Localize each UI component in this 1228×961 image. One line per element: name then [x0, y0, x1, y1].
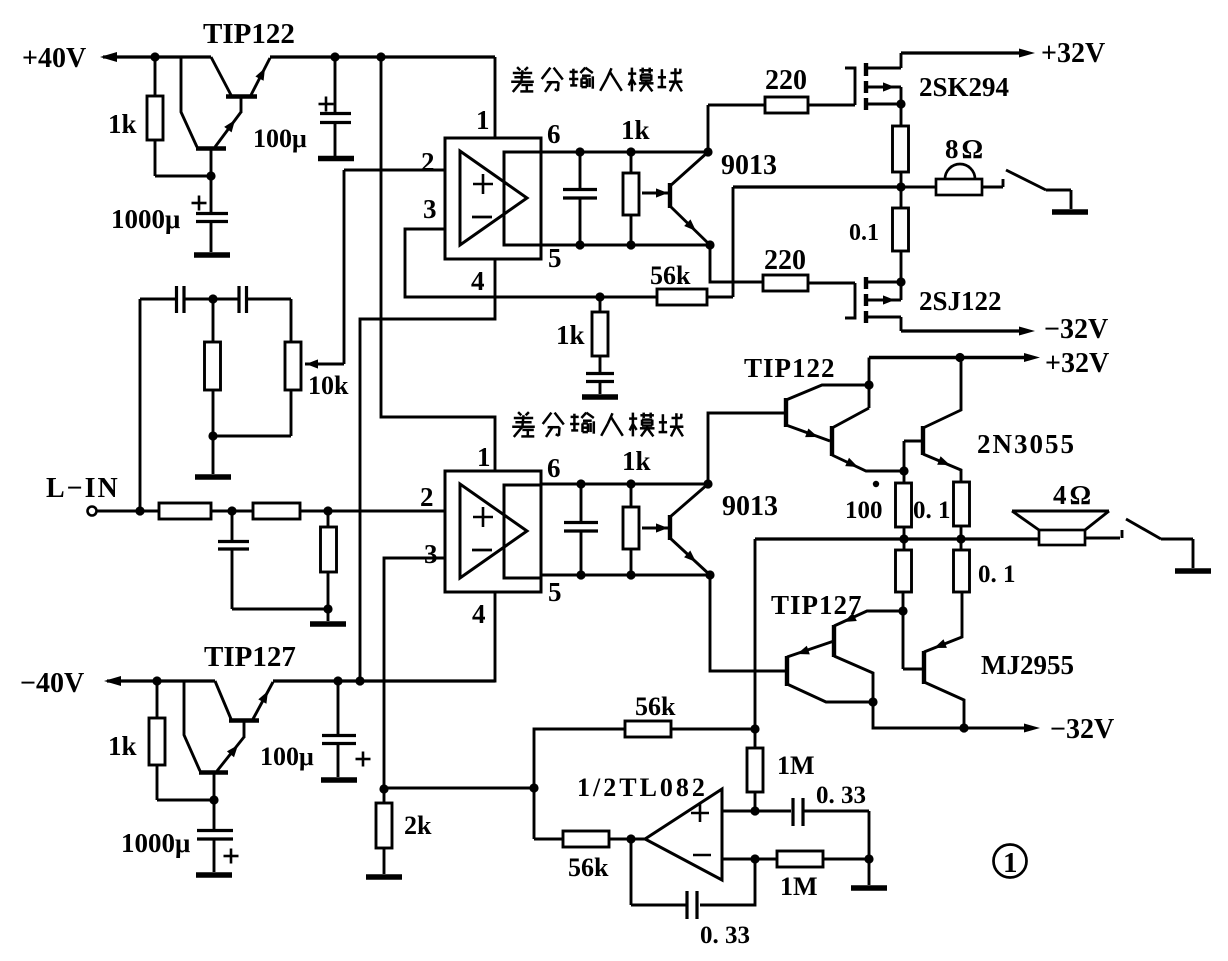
resistor R14 input shunt [321, 527, 337, 572]
svg-text:2: 2 [420, 482, 434, 512]
polarity + of C8 [224, 855, 239, 858]
pin 5 wire U1 [541, 244, 710, 247]
ground at switch upper [1052, 209, 1088, 215]
svg-text:1: 1 [477, 442, 491, 472]
capacitor C9 100u electrolytic [322, 681, 356, 777]
node Q3 emitter [705, 570, 714, 579]
svg-text:10k: 10k [308, 371, 349, 400]
wire to 220 upper [708, 104, 765, 107]
node MJ2955 collector on rail [959, 723, 968, 732]
svg-text:1M: 1M [780, 872, 818, 901]
svg-text:−40V: −40V [20, 668, 84, 699]
node TIP127 emitter junction [898, 606, 907, 615]
wire -32V rail 2 [873, 702, 1028, 728]
wire 9013 emitter to TIP127 base [710, 575, 785, 671]
svg-text:220: 220 [765, 65, 807, 96]
transistor Q7 TIP127 driver [787, 641, 873, 702]
svg-text:1000μ: 1000μ [121, 828, 190, 858]
node output 8ohm [896, 182, 905, 191]
resistor R12 input series a [159, 503, 211, 519]
wire wiper to U1 pin2 [343, 170, 346, 364]
minus sign U3 [693, 854, 711, 857]
capacitor C7 input lowpass [218, 511, 249, 609]
pin 3 wire U1 feedback [405, 229, 657, 297]
svg-text:100μ: 100μ [260, 742, 314, 771]
ground below C2 [318, 156, 354, 162]
wire +32V rail upper [901, 51, 1022, 54]
op-amp module U2 box [445, 471, 541, 592]
plus sign U1 [473, 183, 493, 186]
wire [211, 510, 253, 513]
wire input [97, 510, 159, 513]
node R9 bottom [626, 570, 635, 579]
node base/1000u junction lower [209, 795, 218, 804]
wire rail to collectors [868, 358, 871, 409]
wire input to U2 pin2 [300, 510, 445, 513]
svg-text:1000μ: 1000μ [111, 204, 180, 234]
wire to ground 10k [212, 436, 215, 474]
wire U3 minus input [722, 858, 755, 861]
node 2SK294 source [896, 99, 905, 108]
svg-text:4Ω: 4Ω [1053, 480, 1094, 510]
ground servo [851, 885, 887, 891]
svg-text:3: 3 [423, 194, 437, 224]
transistor Q5 TIP122 driver [786, 385, 869, 441]
wire +40V filtered rail [270, 55, 495, 58]
ground at switch lower [1175, 568, 1211, 574]
capacitor C8 1000u electrolytic [197, 800, 233, 872]
wire cap row left [140, 298, 175, 301]
resistor R19 100 lower [896, 550, 912, 592]
resistor R10 divider left [205, 342, 221, 390]
svg-text:56k: 56k [650, 261, 691, 290]
polarity + of C9 [356, 758, 371, 761]
transistor Q1a TIP122 driver [181, 57, 241, 176]
wire output rail 2 [755, 537, 1039, 540]
resistor R8 0.1 upper [893, 208, 909, 251]
node 1M/cap junction [864, 854, 873, 863]
pin 6 wire U2 [541, 483, 708, 486]
svg-text:2: 2 [421, 147, 435, 177]
capacitor C3 across U1 output [563, 152, 597, 245]
capacitor C12 feedback series [586, 374, 614, 395]
svg-text:+40V: +40V [22, 43, 86, 74]
svg-text:9013: 9013 [722, 491, 778, 522]
pin 4 wire U1 to -40V rail [360, 259, 495, 681]
node plus input [750, 806, 759, 815]
terminal L-IN [88, 507, 97, 516]
node output rail left resistor [899, 534, 908, 543]
svg-text:6: 6 [547, 453, 561, 483]
wire -40V rail left [107, 679, 215, 682]
wiper arrow R2 to 9013 base [642, 192, 668, 195]
svg-text:0.1: 0.1 [849, 220, 879, 246]
node 2SJ122 drain [896, 277, 905, 286]
wire lowpass bottom row [232, 608, 328, 611]
wiper of 10k pot [305, 363, 344, 366]
node shunt bottom [323, 604, 332, 613]
ground below C9 [321, 777, 357, 783]
resistor R9 1k bias pot [623, 507, 639, 549]
transistor Q3 9013 lower [670, 484, 710, 575]
node C3 bottom [575, 240, 584, 249]
svg-text:1k: 1k [622, 446, 651, 476]
potentiometer R11 10k [285, 299, 301, 436]
node input right [323, 506, 332, 515]
minus sign U2 [472, 549, 492, 552]
wire output tap 2 [754, 539, 757, 729]
wire Q2 emitter down [710, 245, 763, 282]
wire pot bottom row [213, 435, 291, 438]
node pot bottom [208, 431, 217, 440]
wire +40V rail left [103, 55, 211, 58]
svg-text:TIP122: TIP122 [744, 353, 836, 383]
wire output tap vertical [732, 187, 735, 297]
wire 56k bottom left [534, 838, 563, 841]
svg-text:+32V: +32V [1045, 348, 1109, 379]
svg-text:0. 33: 0. 33 [816, 782, 866, 809]
capacitor C10 0.33 top [755, 798, 869, 826]
wire 56k right [671, 728, 755, 731]
node +40V/1k junction [150, 52, 159, 61]
capacitor C1 1000u electrolytic [196, 176, 228, 252]
node rail / 2N3055 collector [955, 353, 964, 362]
resistor R17 100 [896, 483, 912, 527]
svg-text:9013: 9013 [721, 150, 777, 181]
svg-text:5: 5 [548, 577, 562, 607]
ground 10k network [195, 474, 231, 480]
capacitor C5 coupling a [177, 286, 213, 313]
svg-text:1k: 1k [556, 320, 585, 350]
polarity + of C1 [192, 202, 207, 205]
resistor R22 1M vertical [747, 748, 763, 792]
svg-text:1M: 1M [777, 751, 815, 780]
svg-text:2SK294: 2SK294 [919, 72, 1009, 102]
node C4 bottom [576, 570, 585, 579]
speaker 4 ohm [1012, 511, 1109, 545]
svg-text:MJ2955: MJ2955 [981, 650, 1074, 680]
wire +32V rail 2 [869, 356, 1028, 359]
transistor Q4b TIP127 output [215, 681, 273, 738]
ground below C8 [196, 872, 232, 878]
node feedback/1k junction [595, 292, 604, 301]
op-amp U2 inner rect [504, 485, 541, 578]
wire coupling riser [139, 299, 142, 511]
pin 4 wire U2 + -40V rail right [273, 592, 495, 681]
wire base node lower [157, 799, 214, 802]
wire -40V filtered rail [273, 679, 495, 682]
node U3 output [626, 834, 635, 843]
speck [873, 481, 879, 487]
node output rail right resistor [956, 534, 965, 543]
svg-text:100: 100 [845, 497, 883, 524]
node TIP127 collectors [868, 697, 877, 706]
resistor R7 source [893, 126, 909, 172]
node R9 top [626, 479, 635, 488]
pin 2 wire U1 [344, 169, 445, 172]
node input mid [227, 506, 236, 515]
node C4 top [576, 479, 585, 488]
node -40V/1k junction [152, 676, 161, 685]
svg-text:4: 4 [472, 599, 486, 629]
resistor R5 1k to ground [592, 312, 608, 356]
resistor R18 0.1 a [954, 482, 970, 526]
node Q2 collector [703, 147, 712, 156]
wire -32V rail upper [901, 329, 1022, 332]
resistor R16 2k [376, 803, 392, 848]
resistor R3 220 upper [765, 97, 808, 113]
pin 6 wire U1 [541, 151, 708, 154]
node TIP122 collector [864, 380, 873, 389]
switch lower [1085, 519, 1193, 568]
node R2 top [626, 147, 635, 156]
svg-text:56k: 56k [635, 692, 676, 721]
switch upper [982, 170, 1071, 209]
wire U3 output apex [609, 838, 645, 841]
node driver emitter junction [899, 466, 908, 475]
resistor R23 1M horizontal [777, 851, 823, 867]
wire 56k right to output tap [707, 296, 733, 299]
svg-text:6: 6 [547, 119, 561, 149]
node R2 bottom [626, 240, 635, 249]
resistor R13 input series b [253, 503, 300, 519]
wire servo to pin3 node [384, 787, 534, 790]
pin 1 wire U1 [494, 57, 497, 138]
transistor Q4a TIP127 driver [184, 681, 244, 800]
plus sign U2 [473, 516, 493, 519]
label module2 chinese [518, 412, 521, 415]
svg-text:2N3055: 2N3055 [977, 429, 1076, 459]
node 100u tap [330, 52, 339, 61]
wire integrator cap to output [630, 839, 633, 905]
resistor R2 1k bias pot [623, 173, 639, 215]
mosfet 2SJ122 [845, 277, 901, 331]
pin 5 wire U2 [541, 574, 710, 577]
resistor R4 56k upper [657, 289, 707, 305]
ground below 2k [366, 874, 402, 880]
op-amp module U1 box [445, 138, 541, 259]
mosfet 2SK294 [845, 53, 901, 126]
wire to ground input [327, 609, 330, 621]
svg-text:220: 220 [764, 245, 806, 276]
capacitor C11 0.33 bottom [631, 891, 697, 919]
svg-text:0. 1: 0. 1 [978, 561, 1016, 588]
resistor R15 1k [149, 718, 165, 765]
wire to ground servo [868, 859, 871, 885]
wire Q2 collector up to 220 [707, 105, 710, 152]
wire cap to 1M right [868, 811, 871, 859]
svg-text:+32V: +32V [1041, 38, 1105, 69]
wire 1M right [823, 858, 869, 861]
svg-text:8Ω: 8Ω [945, 134, 986, 164]
pin 3 wire U2 [384, 558, 445, 789]
svg-text:TIP122: TIP122 [203, 18, 295, 50]
ground below C1 [194, 252, 230, 258]
node output tap / 1M [750, 724, 759, 733]
svg-text:4: 4 [471, 266, 485, 296]
wire +40V drop to module2 pin1 [381, 57, 495, 471]
svg-text:1k: 1k [108, 109, 137, 139]
plus sign U3 [691, 812, 709, 815]
svg-text:100μ: 100μ [253, 124, 307, 153]
svg-text:1/2TL082: 1/2TL082 [577, 773, 708, 802]
svg-text:1: 1 [1003, 847, 1018, 879]
polarity + of C2 [319, 103, 334, 106]
svg-text:0. 1: 0. 1 [913, 497, 951, 524]
node minus input [750, 854, 759, 863]
transistor Q1b TIP122 output [211, 57, 270, 113]
minus sign U1 [472, 216, 492, 219]
resistor R1 1k [147, 96, 163, 140]
node Q3 collector [703, 479, 712, 488]
label module1 chinese [517, 67, 520, 70]
svg-text:0. 33: 0. 33 [700, 922, 750, 949]
wire U3 plus input [722, 810, 755, 813]
wire 9013 collector to TIP122 base [708, 413, 784, 484]
svg-text:1k: 1k [108, 731, 137, 761]
resistor R20 0.1 b [954, 550, 970, 592]
svg-text:2SJ122: 2SJ122 [919, 286, 1002, 316]
svg-text:3: 3 [424, 539, 438, 569]
resistor R21 56k servo top [625, 721, 671, 737]
svg-text:5: 5 [548, 243, 562, 273]
svg-text:56k: 56k [568, 853, 609, 882]
ground below C12 [582, 394, 618, 400]
capacitor C2 100u electrolytic [320, 57, 351, 156]
node servo left junction [529, 783, 538, 792]
figure number circled 1 [994, 845, 1027, 878]
resistor R6 220 lower [763, 275, 808, 291]
capacitor C4 across U2 output [564, 484, 598, 575]
ground input network [310, 621, 346, 627]
svg-text:−32V: −32V [1050, 714, 1114, 745]
op-amp U2 triangle [460, 484, 527, 578]
wire 220 to 2SK294 gate [808, 104, 855, 107]
svg-text:L−IN: L−IN [46, 473, 120, 504]
resistor R24 56k servo bottom [563, 831, 609, 847]
wire output row upper [733, 185, 901, 188]
op-amp U1 triangle [460, 151, 527, 245]
node C3 top [575, 147, 584, 156]
node pin3 servo junction [379, 784, 388, 793]
node rail to lower module pin1 [376, 52, 385, 61]
transistor Q8 MJ2955 [903, 592, 964, 728]
wiper arrow R9 to 9013 base [642, 527, 668, 530]
capacitor C6 coupling b [213, 286, 291, 313]
op-amp U1 inner rect [504, 152, 541, 245]
svg-text:1k: 1k [621, 115, 650, 145]
svg-text:1: 1 [476, 105, 490, 135]
node cap row centre [208, 294, 217, 303]
svg-text:TIP127: TIP127 [204, 641, 296, 673]
svg-text:TIP127: TIP127 [771, 590, 863, 620]
transistor Q7b TIP127 second [834, 611, 903, 702]
wire 56k left [534, 729, 625, 839]
speaker 8 ohm [901, 164, 982, 195]
node 100u tap lower [333, 676, 342, 685]
node module1 pin4 drop [355, 676, 364, 685]
transistor Q6 2N3055 [904, 358, 961, 483]
wire 220 to 2SJ122 gate [808, 282, 855, 285]
node Q2 emitter [705, 240, 714, 249]
wire minus to integrator cap [700, 859, 755, 905]
svg-text:−32V: −32V [1044, 314, 1108, 345]
wire base node [155, 175, 211, 178]
node input/coupling junction [135, 506, 144, 515]
node base/1000u junction [206, 171, 215, 180]
op-amp U3 TL082 triangle [645, 789, 722, 880]
svg-text:2k: 2k [404, 811, 432, 840]
transistor Q2 9013 upper [670, 152, 710, 245]
transistor Q5b TIP122 output [832, 408, 902, 471]
